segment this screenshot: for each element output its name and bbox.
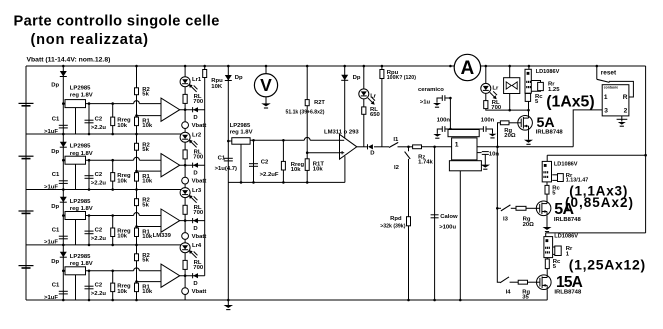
svg-text:A: A — [461, 58, 475, 79]
svg-text:Dp: Dp — [51, 83, 59, 89]
svg-text:700: 700 — [193, 265, 204, 271]
svg-text:(1,25Ax12): (1,25Ax12) — [569, 257, 646, 273]
svg-text:100K? (120): 100K? (120) — [387, 75, 416, 81]
svg-text:35: 35 — [522, 294, 529, 300]
svg-text:650: 650 — [370, 112, 381, 118]
svg-text:>2.2u: >2.2u — [91, 125, 107, 131]
svg-text:R2T: R2T — [314, 100, 325, 106]
svg-text:10k: 10k — [313, 167, 324, 173]
svg-text:LM311 o 293: LM311 o 293 — [324, 129, 359, 135]
svg-text:5A: 5A — [554, 201, 574, 218]
svg-text:>100u: >100u — [439, 225, 456, 231]
svg-text:LD1086V: LD1086V — [554, 234, 578, 240]
svg-text:1.13/1.47: 1.13/1.47 — [566, 177, 588, 183]
svg-text:Lr1: Lr1 — [192, 77, 202, 83]
svg-text:2: 2 — [624, 108, 628, 115]
svg-text:>1u: >1u — [420, 99, 431, 105]
svg-text:reset: reset — [601, 69, 617, 76]
svg-text:D: D — [193, 171, 197, 177]
svg-text:IRLB8748: IRLB8748 — [554, 289, 582, 295]
svg-text:Lr4: Lr4 — [192, 243, 202, 249]
svg-text:I2: I2 — [394, 165, 400, 171]
svg-text:Vbatt: Vbatt — [192, 123, 207, 129]
svg-text:20Ω: 20Ω — [523, 222, 535, 228]
svg-text:LP2985: LP2985 — [230, 123, 251, 129]
svg-text:LP2985: LP2985 — [70, 144, 91, 150]
svg-text:(0,85Ax2): (0,85Ax2) — [565, 195, 634, 210]
svg-text:D: D — [193, 115, 197, 121]
svg-text:10k: 10k — [117, 234, 128, 240]
svg-text:LD1086V: LD1086V — [554, 162, 578, 168]
svg-text:10k: 10k — [142, 289, 153, 295]
svg-text:3: 3 — [604, 108, 608, 115]
svg-text:IRLB8748: IRLB8748 — [554, 217, 582, 223]
svg-text:IRLB8748: IRLB8748 — [536, 129, 564, 135]
svg-text:>1uF: >1uF — [44, 129, 58, 135]
svg-text:1.74k: 1.74k — [418, 160, 433, 166]
svg-text:Vbatt: Vbatt — [192, 179, 207, 185]
svg-text:700: 700 — [193, 210, 204, 216]
svg-text:Lr2: Lr2 — [192, 133, 202, 139]
svg-text:>2.2u: >2.2u — [91, 236, 107, 242]
svg-text:Dp: Dp — [353, 75, 361, 81]
svg-text:10k: 10k — [117, 289, 128, 295]
svg-text:C2: C2 — [95, 227, 103, 233]
svg-text:>1uF: >1uF — [44, 184, 58, 190]
svg-text:>1uF: >1uF — [44, 240, 58, 246]
svg-text:100n: 100n — [437, 117, 451, 123]
svg-text:I4: I4 — [506, 289, 512, 295]
svg-text:Rpd: Rpd — [390, 216, 402, 222]
svg-text:LD1086V: LD1086V — [536, 69, 560, 75]
svg-text:Vbatt: Vbatt — [192, 234, 207, 240]
svg-text:C1: C1 — [218, 155, 226, 161]
svg-text:D: D — [193, 226, 197, 232]
svg-text:Parte controllo singole celle: Parte controllo singole celle — [14, 14, 220, 30]
svg-text:V: V — [260, 75, 272, 95]
svg-text:Dp: Dp — [235, 75, 243, 81]
svg-text:LP2985: LP2985 — [70, 254, 91, 260]
svg-text:Vbatt (11-14.4V: nom.12.8): Vbatt (11-14.4V: nom.12.8) — [27, 57, 111, 64]
svg-text:(non realizzata): (non realizzata) — [31, 32, 149, 48]
svg-text:D: D — [193, 281, 197, 287]
svg-text:>32k (39k): >32k (39k) — [380, 223, 406, 229]
svg-text:LP2985: LP2985 — [70, 199, 91, 205]
svg-text:I1: I1 — [393, 137, 399, 143]
svg-text:10k: 10k — [117, 123, 128, 129]
svg-text:contaore: contaore — [604, 85, 618, 89]
svg-text:C2: C2 — [261, 160, 269, 166]
svg-text:10K: 10K — [211, 84, 223, 90]
svg-text:Lr3: Lr3 — [192, 188, 202, 194]
svg-text:reg 1.8V: reg 1.8V — [230, 129, 253, 135]
svg-text:Vbatt: Vbatt — [192, 289, 207, 295]
svg-text:C1: C1 — [52, 283, 60, 289]
svg-text:20Ω: 20Ω — [504, 133, 516, 139]
svg-text:700: 700 — [193, 155, 204, 161]
svg-text:>2.2uF: >2.2uF — [260, 172, 279, 178]
svg-text:reg 1.8V: reg 1.8V — [70, 93, 93, 99]
svg-text:C1: C1 — [52, 117, 60, 123]
svg-text:1: 1 — [455, 142, 459, 149]
svg-text:5k: 5k — [142, 92, 149, 98]
svg-text:Lr: Lr — [370, 94, 377, 100]
svg-text:Dp: Dp — [51, 259, 59, 265]
svg-text:100n: 100n — [481, 118, 495, 124]
svg-text:LM339: LM339 — [153, 233, 172, 239]
svg-text:(1Ax5): (1Ax5) — [546, 93, 594, 110]
svg-text:Lr: Lr — [492, 86, 499, 92]
svg-text:10k: 10k — [117, 178, 128, 184]
svg-text:I3: I3 — [503, 217, 509, 223]
svg-text:>1u(4.7): >1u(4.7) — [215, 166, 237, 172]
svg-text:>1uF: >1uF — [44, 295, 58, 301]
svg-text:1: 1 — [604, 94, 608, 101]
svg-text:5k: 5k — [142, 258, 149, 264]
svg-text:Dp: Dp — [51, 204, 59, 210]
svg-text:5k: 5k — [142, 147, 149, 153]
svg-text:51.1k (39+6.8x2): 51.1k (39+6.8x2) — [286, 109, 325, 115]
svg-text:C2: C2 — [95, 117, 103, 123]
svg-text:C2: C2 — [95, 172, 103, 178]
svg-text:D: D — [370, 151, 374, 157]
svg-text:ceramico: ceramico — [418, 87, 444, 93]
svg-text:Dp: Dp — [51, 149, 59, 155]
svg-text:Calow: Calow — [440, 214, 458, 220]
svg-text:10k: 10k — [291, 167, 302, 173]
svg-text:10k: 10k — [142, 234, 153, 240]
svg-text:C1: C1 — [52, 172, 60, 178]
svg-text:10k: 10k — [142, 179, 153, 185]
svg-text:C2: C2 — [95, 283, 103, 289]
svg-text:10k: 10k — [142, 123, 153, 129]
svg-text:R: R — [623, 94, 628, 101]
svg-text:LP2985: LP2985 — [70, 85, 91, 91]
svg-text:>2.2u: >2.2u — [91, 181, 107, 187]
svg-text:>2.2u: >2.2u — [91, 291, 107, 297]
svg-text:1.25: 1.25 — [548, 87, 560, 93]
svg-text:700: 700 — [193, 99, 204, 105]
svg-text:5k: 5k — [142, 203, 149, 209]
svg-text:C1: C1 — [52, 228, 60, 234]
